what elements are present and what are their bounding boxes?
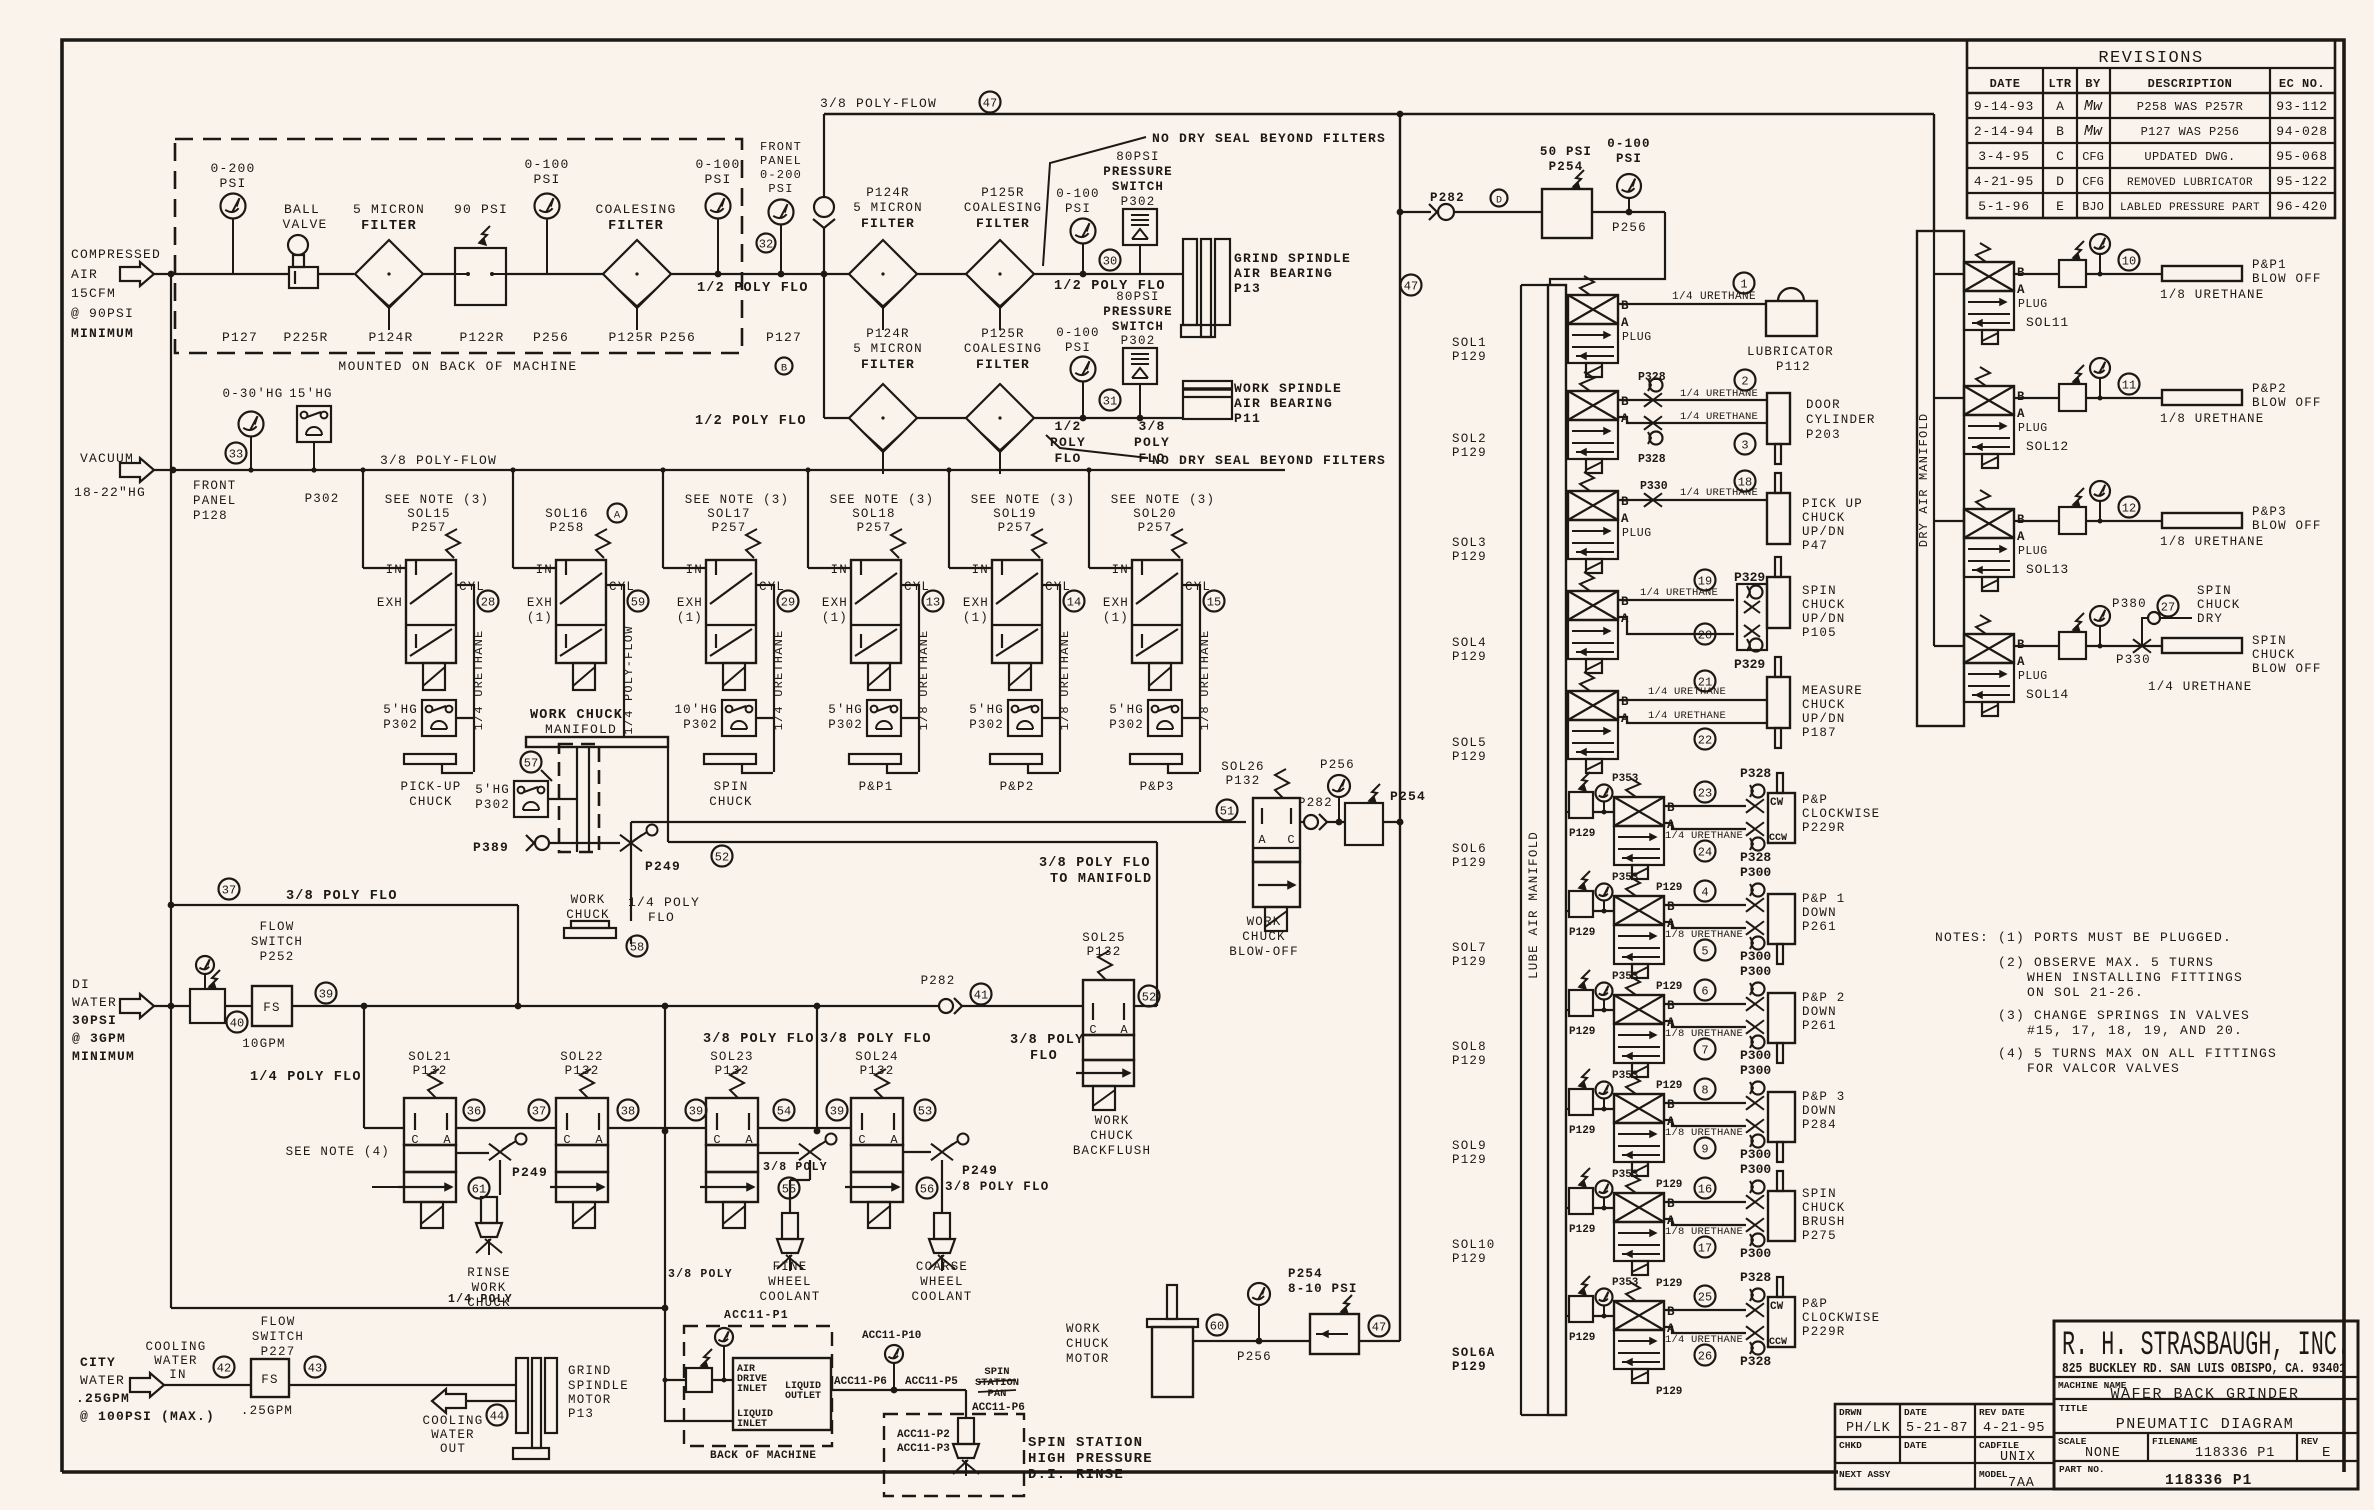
svg-text:B: B: [1621, 299, 1629, 313]
gauge P353 SOL6A: [1596, 1277, 1639, 1319]
svg-text:1/8 URETHANE: 1/8 URETHANE: [2160, 412, 2264, 426]
svg-text:P282: P282: [1298, 796, 1333, 810]
svg-text:SOL10: SOL10: [1452, 1238, 1496, 1252]
svg-text:5 MICRON: 5 MICRON: [353, 202, 425, 217]
svg-text:SOL26: SOL26: [1221, 760, 1265, 774]
svg-text:PLUG: PLUG: [2018, 422, 2048, 435]
svg-text:A: A: [2017, 655, 2025, 669]
circled 2: [1735, 370, 1756, 391]
svg-text:IN: IN: [386, 563, 403, 577]
gauge SOL14 out: [2090, 606, 2110, 649]
regulator SOL12 out: [2059, 365, 2086, 411]
circled 52 right: [1139, 986, 1160, 1007]
note NO DRY SEAL BEYOND FILTERS upper: [1043, 131, 1386, 266]
check valve P380: [2100, 597, 2192, 646]
svg-text:B: B: [1621, 395, 1629, 409]
circled 14: [1064, 591, 1085, 612]
svg-text:P249: P249: [512, 1165, 548, 1180]
wire to spin nozzle: [965, 1390, 967, 1418]
needle P328 lower SOL6A: [1740, 1326, 1771, 1369]
svg-text:P284: P284: [1802, 1118, 1837, 1132]
svg-text:P129: P129: [1569, 1125, 1595, 1137]
solenoid valve SOL15 P257: [377, 493, 489, 690]
circled 58: [627, 936, 648, 957]
svg-text:P129: P129: [1452, 550, 1487, 564]
spin chuck cylinder P105: [1767, 557, 1846, 640]
wire SOL14 B out: [2014, 645, 2162, 647]
svg-text:SOL7: SOL7: [1452, 941, 1487, 955]
svg-text:1/4 POLY: 1/4 POLY: [448, 1293, 513, 1306]
svg-text:SPIN STATION: SPIN STATION: [1028, 1435, 1143, 1451]
gauge SOL12 out: [2090, 358, 2110, 401]
svg-text:3/8 POLY: 3/8 POLY: [1010, 1033, 1084, 1048]
svg-text:FS: FS: [263, 1001, 280, 1015]
label 3/8 POLY FLO sol23 top: [703, 1032, 815, 1047]
solenoid valve SOL16 P258: [527, 504, 635, 691]
svg-text:SOL2: SOL2: [1452, 432, 1487, 446]
svg-text:P389: P389: [473, 840, 509, 855]
wire work spindle row: [917, 415, 1183, 422]
wire SOL1 B to lubricator: [1618, 303, 1766, 305]
label ACC11-P1: [724, 1309, 789, 1322]
wire motor line: [1193, 1338, 1400, 1345]
svg-text:0-100: 0-100: [524, 157, 569, 172]
svg-text:PSI: PSI: [1065, 341, 1091, 355]
circled 23: [1695, 782, 1716, 803]
svg-text:SCALE: SCALE: [2058, 1436, 2087, 1447]
work chuck manifold: [526, 708, 668, 852]
svg-text:P330: P330: [2116, 653, 2151, 667]
svg-text:SOL4: SOL4: [1452, 636, 1487, 650]
svg-text:40: 40: [230, 1017, 244, 1031]
circled 3: [1735, 434, 1756, 455]
circled 6: [1695, 980, 1716, 1001]
device SOL8: [1768, 991, 1846, 1063]
regulator P129 SOL7: [1566, 871, 1614, 939]
filter P124R 5 MICRON (grind row): [849, 186, 923, 330]
svg-text:22: 22: [1698, 734, 1712, 748]
gauge P127 0-200 PSI: [210, 161, 255, 274]
gauge 0-100 PSI grind bearing: [1056, 187, 1100, 277]
check valve P282 DI line: [921, 974, 1083, 1014]
svg-text:1/8 URETHANE: 1/8 URETHANE: [1198, 630, 1212, 731]
label 1/4 POLY FLO: [250, 1070, 362, 1085]
circled 7: [1695, 1039, 1716, 1060]
solenoid valve SOL9 P129: [1614, 1075, 1682, 1191]
wire SOL8 B: [1664, 1003, 1746, 1005]
svg-text:1/8 URETHANE: 1/8 URETHANE: [1058, 630, 1072, 731]
svg-text:IN: IN: [831, 563, 848, 577]
svg-text:1/4 URETHANE: 1/4 URETHANE: [1680, 411, 1758, 423]
svg-text:UNIX: UNIX: [2000, 1450, 2036, 1465]
label 1/2 POLY FLO grind row: [1054, 279, 1166, 294]
lube air manifold: [1521, 285, 1566, 1415]
flow switch P252: [242, 920, 303, 1051]
svg-text:P328: P328: [1740, 766, 1771, 781]
circled 10: [2119, 250, 2140, 271]
chuck symbol under SOL15: [404, 754, 474, 773]
svg-text:P328: P328: [1740, 1354, 1771, 1369]
svg-text:5'HG: 5'HG: [475, 783, 510, 797]
svg-text:@ 90PSI: @ 90PSI: [71, 306, 134, 321]
wire 52 line: [668, 842, 1157, 1006]
circled 30: [1100, 250, 1121, 271]
svg-text:POLY: POLY: [1134, 435, 1170, 450]
circled 25: [1695, 1286, 1716, 1307]
svg-text:WAFER BACK GRINDER: WAFER BACK GRINDER: [2110, 1386, 2299, 1403]
label SOL9 P129 left: [1452, 1139, 1487, 1167]
svg-text:P256: P256: [533, 330, 569, 345]
svg-text:CHUCK: CHUCK: [1802, 598, 1846, 612]
svg-text:20: 20: [1698, 629, 1712, 643]
work chuck motor: [1147, 1285, 1198, 1397]
circled 53: [915, 1100, 936, 1121]
label WORK CHUCK MOTOR: [1066, 1322, 1110, 1366]
svg-text:SOL12: SOL12: [2026, 439, 2069, 454]
label 1/8 URETHANE vertical: [1058, 630, 1072, 731]
P329 needle block: [1734, 570, 1767, 672]
svg-text:P122R: P122R: [459, 330, 504, 345]
circled 12: [2119, 497, 2140, 518]
svg-text:P129: P129: [1569, 1332, 1595, 1344]
svg-text:7: 7: [1701, 1044, 1708, 1058]
svg-text:15'HG: 15'HG: [289, 387, 333, 401]
circled 51: [1217, 800, 1238, 821]
svg-text:DOWN: DOWN: [1802, 1104, 1837, 1118]
rinse nozzle: [476, 1197, 502, 1255]
svg-text:1/8 URETHANE: 1/8 URETHANE: [1665, 1028, 1743, 1040]
svg-text:SOL23: SOL23: [710, 1050, 754, 1064]
vacuum switch 5'HG P302 under SOL19: [969, 700, 1060, 736]
svg-text:P129: P129: [1452, 446, 1487, 460]
cyl wire SOL15: [456, 585, 474, 772]
pressure switch P302 work: [1103, 290, 1173, 418]
label 1/4 POLY-FLOW vertical: [622, 625, 636, 734]
svg-text:COALESING: COALESING: [964, 201, 1042, 215]
svg-text:EXH: EXH: [1103, 596, 1129, 610]
svg-text:REV DATE: REV DATE: [1979, 1407, 2025, 1418]
svg-text:C: C: [1287, 833, 1294, 847]
filter P125R COALESING: [595, 202, 676, 330]
svg-text:1/4 URETHANE: 1/4 URETHANE: [472, 630, 486, 731]
label P127: [222, 330, 258, 345]
svg-text:13: 13: [926, 596, 940, 610]
svg-text:9: 9: [1701, 1143, 1708, 1157]
dashed enclosure MOUNTED ON BACK OF MACHINE: [175, 139, 742, 374]
svg-text:B: B: [781, 363, 787, 375]
svg-text:43: 43: [308, 1362, 322, 1376]
svg-text:E: E: [2322, 1445, 2330, 1461]
grind spindle air bearing P13: [1181, 239, 1351, 337]
cyl wire SOL19: [1042, 585, 1060, 772]
svg-text:P125R: P125R: [981, 186, 1025, 200]
circled 39 di: [316, 983, 337, 1004]
label 3/8 POLY-FLOW vacuum bus: [380, 453, 497, 468]
svg-text:57: 57: [524, 757, 538, 771]
svg-text:FILTER: FILTER: [361, 219, 417, 234]
manifold tap SOL14: [1934, 645, 1964, 647]
svg-text:P227: P227: [261, 1345, 296, 1359]
svg-text:4-21-95: 4-21-95: [1983, 1421, 2045, 1436]
svg-text:6: 6: [1701, 985, 1708, 999]
svg-text:P302: P302: [828, 718, 863, 732]
svg-text:31: 31: [1103, 395, 1117, 409]
svg-text:1/8 URETHANE: 1/8 URETHANE: [917, 630, 931, 731]
svg-text:P129: P129: [1656, 1080, 1682, 1092]
label SOL6 P129 left: [1452, 842, 1487, 870]
label P225R: [283, 330, 328, 345]
svg-text:BJO: BJO: [2082, 200, 2104, 214]
svg-text:33: 33: [229, 448, 243, 462]
circled 28: [478, 591, 499, 612]
svg-text:P256: P256: [1237, 1350, 1272, 1364]
label 3/8 POLY drain: [668, 1268, 733, 1281]
circled 54: [774, 1100, 795, 1121]
circled 15: [1204, 591, 1225, 612]
svg-text:P&P3: P&P3: [2252, 505, 2287, 519]
svg-text:3: 3: [1741, 439, 1748, 453]
svg-text:ACC11-P6: ACC11-P6: [972, 1402, 1025, 1414]
svg-text:1/4 POLY FLO: 1/4 POLY FLO: [250, 1070, 362, 1085]
svg-text:P105: P105: [1802, 626, 1837, 640]
svg-text:P129: P129: [1569, 927, 1595, 939]
svg-text:INLET: INLET: [737, 1419, 767, 1430]
svg-text:P129: P129: [1452, 1054, 1487, 1068]
svg-text:AIR: AIR: [71, 267, 98, 282]
svg-text:CW: CW: [1770, 797, 1784, 809]
vacuum bus wire: [154, 467, 1285, 474]
DI water wire: [154, 1003, 940, 1010]
solenoid valve SOL26 P132: [1221, 760, 1300, 931]
svg-text:PNEUMATIC DIAGRAM: PNEUMATIC DIAGRAM: [2116, 1416, 2295, 1433]
svg-text:80PSI: 80PSI: [1116, 150, 1160, 164]
svg-text:95-122: 95-122: [2276, 174, 2328, 189]
vacuum switch 5'HG P302 under SOL15: [383, 700, 474, 736]
svg-text:FILENAME: FILENAME: [2152, 1436, 2198, 1447]
svg-text:P&P: P&P: [1802, 1297, 1828, 1311]
svg-text:A: A: [1621, 316, 1629, 330]
circled 21: [1695, 671, 1716, 692]
accumulator box: [733, 1358, 831, 1430]
feed wire to SOL16: [513, 470, 556, 568]
needle valve P249 sol23: [758, 1134, 837, 1214]
needle P328 upper SOL6: [1740, 766, 1771, 813]
svg-text:P252: P252: [260, 950, 295, 964]
svg-text:Mw: Mw: [2084, 98, 2103, 115]
label P256 second: [660, 330, 696, 345]
svg-text:P257: P257: [998, 521, 1033, 535]
gauge P256 mid: [1320, 758, 1355, 825]
svg-text:REVISIONS: REVISIONS: [2098, 49, 2203, 68]
svg-text:PSI: PSI: [533, 172, 560, 187]
regulator 50 PSI P254: [1540, 145, 1592, 238]
chuck symbol under SOL19: [990, 754, 1060, 773]
svg-text:3/8 POLY FLO: 3/8 POLY FLO: [945, 1180, 1049, 1194]
svg-text:GRIND SPINDLE: GRIND SPINDLE: [1234, 251, 1351, 266]
label WORK CHUCK: [566, 893, 610, 922]
svg-text:CHUCK: CHUCK: [1802, 511, 1846, 525]
svg-text:1/8 URETHANE: 1/8 URETHANE: [2160, 288, 2264, 302]
svg-text:COOLANT: COOLANT: [912, 1290, 973, 1304]
circled 41: [971, 984, 992, 1005]
svg-text:3/8 POLY FLO: 3/8 POLY FLO: [1039, 856, 1151, 871]
label P&P2: [1000, 780, 1035, 794]
regulator P129 SOL6: [1566, 772, 1614, 840]
svg-text:CCW: CCW: [1769, 1337, 1787, 1348]
blow off muffler SOL11: [2162, 266, 2242, 281]
svg-text:P282: P282: [921, 974, 956, 988]
solenoid valve SOL14: [1964, 615, 2069, 716]
svg-text:59: 59: [631, 596, 645, 610]
svg-text:IN: IN: [1112, 563, 1129, 577]
svg-text:UP/DN: UP/DN: [1802, 712, 1846, 726]
svg-text:EXH: EXH: [527, 596, 553, 610]
svg-text:5-1-96: 5-1-96: [1978, 199, 2030, 214]
svg-text:93-112: 93-112: [2276, 99, 2328, 114]
svg-text:SWITCH: SWITCH: [251, 935, 303, 949]
solenoid valve SOL2 P129: [1568, 372, 1629, 473]
svg-text:90 PSI: 90 PSI: [454, 202, 508, 217]
label P127 right: [766, 330, 802, 345]
svg-text:P127: P127: [222, 330, 258, 345]
svg-text:7AA: 7AA: [2008, 1476, 2035, 1491]
svg-text:1/2: 1/2: [1054, 419, 1081, 434]
svg-text:PRESSURE: PRESSURE: [1103, 165, 1173, 179]
svg-text:PSI: PSI: [704, 172, 731, 187]
svg-text:(1): (1): [963, 611, 989, 625]
svg-text:47: 47: [983, 97, 997, 111]
svg-text:OUT: OUT: [440, 1442, 466, 1456]
label BACK OF MACHINE: [710, 1450, 817, 1462]
svg-text:NEXT ASSY: NEXT ASSY: [1839, 1469, 1891, 1480]
svg-text:FRONT: FRONT: [193, 479, 237, 493]
label SOL3 P129: [1452, 536, 1487, 564]
gauge 0-100 PSI P256 top right: [1607, 137, 1651, 235]
solenoid valve SOL19 P257: [963, 493, 1075, 690]
solenoid valve SOL23 P132: [700, 1050, 758, 1228]
svg-text:3/8 POLY FLO: 3/8 POLY FLO: [286, 889, 398, 904]
svg-text:GRIND: GRIND: [568, 1364, 612, 1378]
svg-text:PANEL: PANEL: [760, 154, 802, 168]
device SOL6: [1768, 773, 1880, 844]
gauge 0-30HG: [223, 387, 284, 470]
svg-text:825 BUCKLEY RD. SAN LUIS OBISP: 825 BUCKLEY RD. SAN LUIS OBISPO, CA. 934…: [2062, 1362, 2346, 1377]
svg-text:PLUG: PLUG: [2018, 670, 2048, 683]
svg-text:FILTER: FILTER: [976, 357, 1030, 372]
svg-text:ACC11-P3: ACC11-P3: [897, 1443, 950, 1455]
svg-text:@ 3GPM: @ 3GPM: [72, 1031, 126, 1046]
svg-text:3/8 POLY-FLOW: 3/8 POLY-FLOW: [820, 96, 937, 111]
DI water inlet labels: [72, 977, 135, 1064]
svg-text:0-100: 0-100: [695, 157, 740, 172]
svg-text:A: A: [614, 510, 621, 522]
labels SOL13 device: [2160, 505, 2322, 549]
svg-text:HIGH PRESSURE: HIGH PRESSURE: [1028, 1451, 1153, 1467]
svg-text:PLUG: PLUG: [1622, 331, 1652, 344]
circled 38: [618, 1100, 639, 1121]
wire liquid inlet: [663, 1308, 734, 1421]
svg-text:1/4 URETHANE: 1/4 URETHANE: [1665, 1334, 1743, 1346]
svg-text:EXH: EXH: [377, 596, 403, 610]
svg-text:PICK-UP: PICK-UP: [401, 780, 462, 794]
svg-text:P300: P300: [1740, 1246, 1771, 1261]
label SOL7 P129 left: [1452, 941, 1487, 969]
solenoid valve SOL20 P257: [1103, 493, 1215, 690]
svg-text:P129: P129: [1569, 828, 1595, 840]
gauge ACC11-P1: [715, 1328, 733, 1380]
svg-text:P129: P129: [1452, 856, 1487, 870]
wire SOL4 B: [1618, 592, 1734, 600]
svg-text:54: 54: [777, 1105, 791, 1119]
label 1/4 POLY FLO: [628, 895, 700, 925]
svg-text:1/4 URETHANE: 1/4 URETHANE: [2148, 680, 2252, 694]
wire SOL2 B: [1618, 399, 1767, 401]
solenoid valve SOL7 P129: [1614, 877, 1682, 993]
label 1/8 URETHANE SOL7: [1665, 929, 1743, 941]
check valve P389: [473, 835, 620, 855]
svg-text:REV: REV: [2301, 1436, 2318, 1447]
svg-text:CHUCK: CHUCK: [1242, 930, 1286, 944]
label P&P3: [1140, 780, 1175, 794]
regulator P254 8-10 PSI: [1288, 1267, 1359, 1354]
svg-text:UPDATED DWG.: UPDATED DWG.: [2144, 150, 2235, 164]
svg-text:P258 WAS P257R: P258 WAS P257R: [2137, 100, 2243, 114]
label ACC11-P5: [905, 1376, 958, 1388]
svg-text:POLY: POLY: [1050, 435, 1086, 450]
circled 43: [305, 1357, 326, 1378]
svg-text:MINIMUM: MINIMUM: [71, 326, 134, 341]
svg-text:SOL21: SOL21: [408, 1050, 452, 1064]
svg-text:1/8 URETHANE: 1/8 URETHANE: [1665, 929, 1743, 941]
needle valve P249 sol24: [903, 1134, 998, 1214]
grind spindle motor symbol: [513, 1358, 557, 1459]
device SOL10: [1768, 1171, 1846, 1243]
dry air manifold: [1917, 231, 1964, 726]
svg-text:MANIFOLD: MANIFOLD: [545, 722, 617, 737]
svg-text:P225R: P225R: [283, 330, 328, 345]
svg-text:SEE NOTE (3): SEE NOTE (3): [830, 493, 934, 507]
svg-text:(1): (1): [822, 611, 848, 625]
svg-text:LUBE AIR MANIFOLD: LUBE AIR MANIFOLD: [1527, 831, 1541, 979]
svg-text:P129: P129: [1569, 1224, 1595, 1236]
svg-text:P&P1: P&P1: [2252, 258, 2287, 272]
label 3/8 POLY FLO sol24 top: [820, 1032, 932, 1047]
svg-text:P302: P302: [1121, 334, 1156, 348]
filter P125R COALESING (grind row): [964, 186, 1042, 330]
svg-text:WORK CHUCK: WORK CHUCK: [530, 708, 623, 723]
circled 1: [1734, 273, 1755, 294]
svg-text:SOL17: SOL17: [707, 507, 751, 521]
svg-text:P129: P129: [1452, 350, 1487, 364]
svg-text:(1): (1): [527, 611, 553, 625]
city water arrow: [130, 1373, 164, 1397]
svg-text:SEE NOTE (4): SEE NOTE (4): [286, 1145, 390, 1159]
label SOL8 P129 left: [1452, 1040, 1487, 1068]
svg-text:10'HG: 10'HG: [674, 703, 718, 717]
svg-text:28: 28: [481, 596, 495, 610]
circled 56: [917, 1178, 938, 1199]
svg-text:10: 10: [2122, 255, 2136, 269]
svg-text:AIR BEARING: AIR BEARING: [1234, 396, 1333, 411]
svg-text:WATER: WATER: [80, 1373, 125, 1388]
svg-text:P129: P129: [1452, 1360, 1487, 1374]
device SOL6A: [1768, 1277, 1880, 1348]
wire SOL9 B: [1664, 1102, 1746, 1104]
svg-text:COOLING: COOLING: [146, 1340, 207, 1354]
circled 47 mid: [1401, 275, 1422, 296]
label 1/4 URETHANE vertical: [772, 630, 786, 731]
svg-text:1/4 URETHANE: 1/4 URETHANE: [1640, 587, 1718, 599]
